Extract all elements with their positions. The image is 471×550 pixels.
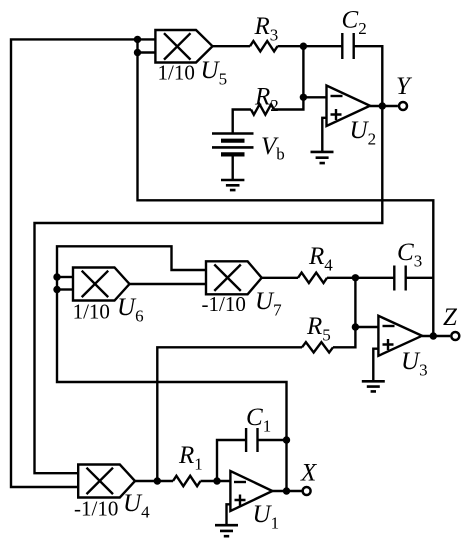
wire vertical x=137.5 U5 input net, Z link	[138, 39, 434, 336]
op-amp U1	[230, 471, 272, 511]
wire C3 right plate to Z vertical	[406, 277, 434, 279]
wire node to C2 left plate	[303, 45, 342, 47]
resistor R2	[251, 104, 274, 114]
svg-text:-1/10: -1/10	[202, 292, 246, 316]
wire U6 output to U7 lower input	[130, 283, 207, 285]
wire C1 left leg	[217, 440, 246, 481]
wire U3 plus input stub	[373, 349, 378, 382]
node R4/C3 junction	[352, 274, 359, 281]
node U5 input upper	[134, 36, 141, 43]
multiplier U5	[155, 30, 212, 63]
resistor R5	[302, 342, 333, 352]
capacitor C1	[246, 428, 257, 452]
wire U1 plus input stub	[227, 504, 231, 525]
multiplier U6	[73, 268, 130, 301]
node U6 input upper	[53, 273, 60, 280]
node U1 output	[283, 487, 290, 494]
wire U2 plus input stub	[322, 118, 326, 152]
wire U3 output	[422, 335, 450, 337]
wire R5 row from x=157.3	[157, 347, 302, 481]
terminal Z	[451, 332, 459, 340]
ground (U1)	[215, 525, 238, 536]
svg-text:-1/10: -1/10	[74, 497, 118, 521]
node U5 input lower	[134, 49, 141, 56]
node U4 output	[154, 477, 161, 484]
wire vertical x=303.4 to U2 inverting input and R2 row	[274, 46, 303, 109]
node R3/C2 junction	[300, 43, 307, 50]
multiplier U4	[78, 465, 135, 498]
wire battery to ground	[231, 154, 233, 180]
wire R2 to battery top	[233, 110, 251, 134]
ground (U2)	[311, 152, 334, 163]
wire C1 right plate row	[258, 439, 287, 441]
resistor R1	[173, 476, 200, 486]
wire node to U2 minus input	[303, 96, 326, 98]
wire Y vertical x=382.3 down to Y link	[35, 104, 383, 473]
node U3 output	[430, 332, 437, 339]
wire U7 upper input feed from X net	[57, 246, 287, 491]
wire U2 output	[370, 105, 398, 107]
svg-text:X: X	[300, 460, 318, 487]
op-amp U3	[378, 316, 422, 356]
svg-text:1/10: 1/10	[73, 300, 110, 324]
capacitor C3	[394, 266, 405, 291]
wire node to C3 left plate	[355, 277, 394, 279]
wire U6 upper input stub	[57, 276, 73, 278]
wire U5 lower input stub	[138, 51, 156, 53]
svg-text:Z: Z	[443, 304, 458, 331]
wire top horizontal Z-feed to U5	[11, 39, 155, 487]
node U2 output	[379, 102, 386, 109]
wire node to U3 minus input	[355, 326, 378, 328]
wire U6 lower input stub	[57, 288, 73, 290]
wire C2 right plate to Y vertical	[354, 46, 383, 106]
multiplier U7	[206, 261, 262, 294]
terminal X	[303, 487, 311, 495]
wire U5 output to R3	[213, 45, 251, 47]
node U6 input lower	[53, 286, 60, 293]
wire R1 to U1 input node	[201, 480, 231, 482]
battery Vb	[212, 134, 254, 155]
wire U1 output	[272, 490, 301, 492]
terminal Y	[399, 102, 407, 110]
ground (U3)	[362, 381, 385, 391]
wire R3 to node	[278, 45, 304, 47]
resistor R4	[298, 273, 327, 283]
wire U7 output to R4	[262, 277, 298, 279]
capacitor C2	[342, 33, 353, 59]
node U1 inverting input	[213, 477, 220, 484]
svg-text:1/10: 1/10	[158, 60, 195, 84]
node C1 right	[283, 436, 290, 443]
wire R4 to node	[327, 277, 355, 279]
op-amp U2	[327, 86, 371, 127]
ground (battery)	[221, 180, 244, 190]
node U2 inverting input	[300, 94, 307, 101]
wire R5 to U3 input node	[333, 327, 355, 347]
wire vertical x=355.4 to U3 inverting node	[354, 278, 356, 327]
wire U4 output	[135, 480, 173, 482]
resistor R3	[250, 41, 277, 51]
node U3 inverting input	[352, 323, 359, 330]
